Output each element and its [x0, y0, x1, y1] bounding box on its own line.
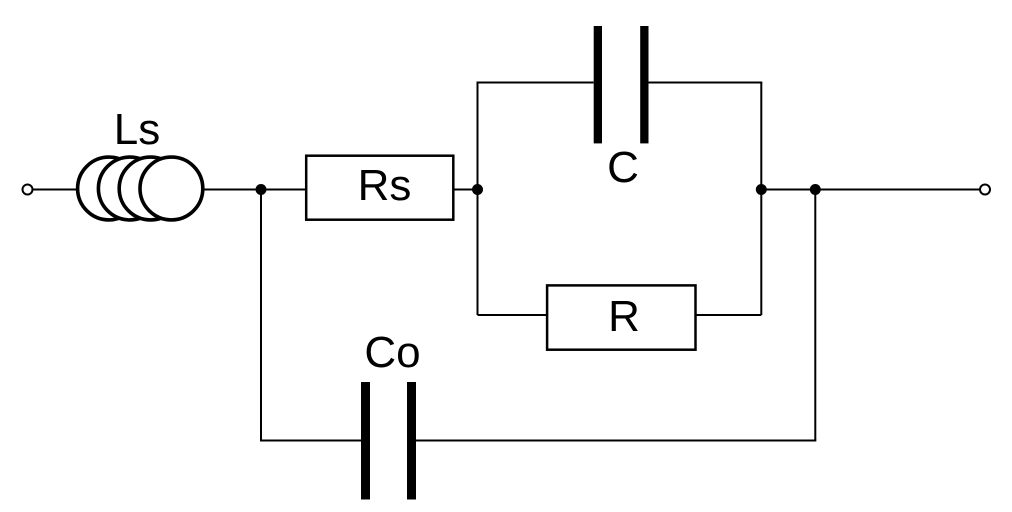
- capacitor C: [594, 26, 649, 143]
- svg-text:C: C: [607, 143, 639, 192]
- node A (junction of Ls, Rs, Co branch): [256, 184, 267, 195]
- input terminal (left port): [23, 185, 33, 195]
- svg-text:Rs: Rs: [358, 161, 412, 210]
- wire: top branch right segment from capacitor C: [649, 82, 763, 84]
- svg-text:Co: Co: [364, 328, 420, 377]
- svg-text:Ls: Ls: [114, 105, 160, 154]
- wire: node A down to bottom Co branch: [260, 190, 262, 441]
- node C (right junction of parallel C / R): [756, 184, 767, 195]
- wire: bottom branch right segment from resistor R: [696, 314, 762, 316]
- resistor R: [547, 285, 695, 349]
- capacitor Co: [361, 382, 416, 500]
- node B (left junction of parallel C / R): [472, 184, 483, 195]
- wire: bottom branch right segment from capacitor Co: [416, 440, 816, 442]
- wire: right vertical of parallel loop: [760, 83, 762, 316]
- wire: resistor Rs to node B: [453, 189, 477, 191]
- wire: top branch left segment to capacitor C: [477, 82, 594, 84]
- inductor Ls: [78, 157, 203, 220]
- wire: node C to node D: [761, 189, 815, 191]
- wire: bottom branch left segment to capacitor Co: [260, 440, 361, 442]
- wire: left terminal to inductor Ls: [33, 189, 80, 191]
- wire: bottom branch left segment to resistor R: [478, 314, 548, 316]
- wire: node D to right terminal: [815, 189, 979, 191]
- node D (junction to Co branch): [810, 184, 821, 195]
- resistor Rs: [306, 156, 453, 220]
- wire: inductor Ls to resistor Rs: [203, 189, 306, 191]
- wire: left vertical of parallel loop: [477, 83, 479, 316]
- wire: node D down to bottom Co branch: [814, 190, 816, 441]
- output terminal (right port): [980, 185, 990, 195]
- svg-text:R: R: [608, 292, 640, 341]
